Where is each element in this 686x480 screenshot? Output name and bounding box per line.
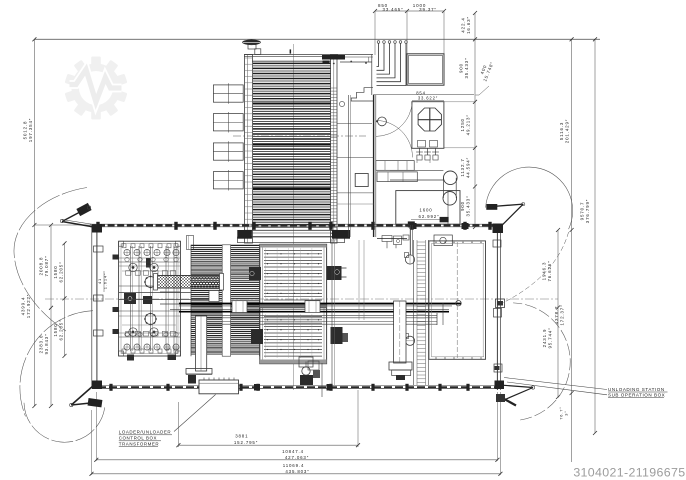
svg-text:39.37″: 39.37″ [419,7,437,12]
section mid lines [337,123,372,125]
svg-text:900: 900 [460,201,465,211]
left door pivot lower [92,381,102,390]
svg-text:3°: 3° [564,410,569,415]
rail carriages [232,301,247,313]
svg-text:1132.7: 1132.7 [460,158,465,176]
bracket above section [337,54,373,56]
svg-text:435.803″: 435.803″ [285,469,309,474]
pallet table dots [267,253,268,254]
loader gripper [124,293,136,304]
small square box [355,174,368,187]
svg-text:49.213″: 49.213″ [466,114,471,135]
svg-text:172.922″: 172.922″ [26,294,31,318]
svg-text:62.205″: 62.205″ [59,261,64,282]
svg-text:4399.4: 4399.4 [21,297,26,316]
loader coupling rows [126,271,131,276]
lower slat hatch [191,244,260,246]
svg-text:11069.4: 11069.4 [283,463,305,468]
lower left door arc [20,311,93,417]
section divider wall [373,95,375,237]
loader left fittings [113,255,120,260]
svg-text:35.433″: 35.433″ [466,195,471,216]
rail valve assemblies [382,236,392,242]
cabinet 1600 [396,191,460,225]
hatch frame lines [190,245,192,356]
svg-text:1.614″: 1.614″ [103,273,108,290]
conveyor left rail [245,55,253,244]
svg-text:172.37″: 172.37″ [560,304,565,325]
svg-text:1600: 1600 [419,208,432,213]
junction box 2 [213,114,243,131]
rail posts [96,222,99,230]
pallet table rows [264,250,322,252]
section step [351,88,373,101]
unload table dots [435,242,436,243]
svg-text:1580: 1580 [53,265,58,278]
electrical cabinet 1000 box [407,54,444,85]
pedestal [187,236,194,250]
unload table [429,241,486,359]
svg-text:1250: 1250 [460,118,465,131]
upper right door arc [486,167,573,229]
top boundary line [34,38,600,40]
pallet left attachments [249,267,261,280]
upper left door arc [14,188,87,332]
svg-text:1946.3: 1946.3 [542,262,547,281]
transformer box [199,380,239,394]
svg-text:5116.3: 5116.3 [559,122,564,140]
pallet table frame [260,244,327,363]
conveyor top frame [244,54,338,56]
svg-text:201.429″: 201.429″ [565,119,570,143]
svg-text:3104021-21196675: 3104021-21196675 [573,465,685,479]
bottom rail foot b [327,384,333,391]
gantry foot [186,369,212,375]
transfer rail second [170,309,449,311]
transfer arm rails [119,292,209,294]
dim line 5012.8 / 4399.4 left [33,39,35,406]
valve manifold [419,148,421,155]
footprint bottom rail [97,385,500,387]
lower right door [495,381,505,390]
conveyor right rail [331,55,338,244]
hatch channel [222,245,230,356]
loader vertical rails [130,246,132,351]
transfer rail dark [179,303,461,305]
upper corridor rail [90,223,500,225]
inner wall [348,95,350,237]
svg-text:93.843″: 93.843″ [44,333,49,354]
svg-text:62.205″: 62.205″ [59,319,64,340]
conveyor top motor [242,40,261,46]
dimension 3881 [178,444,358,446]
junction box 4 [213,172,243,189]
roller lower [405,336,414,345]
svg-text:152.795″: 152.795″ [234,440,258,445]
lift foot [389,362,412,370]
svg-text:41: 41 [97,278,102,284]
dim line 1946.3 / 2431.9 [557,230,559,397]
lower left door [71,383,96,405]
pallet divider [260,304,327,308]
conveyor slat hatch [253,62,331,64]
roller upper [405,255,414,264]
cable bundle [377,41,380,44]
svg-text:9570.7: 9570.7 [580,202,585,221]
svg-text:2431.9: 2431.9 [542,329,547,348]
footprint left edge [91,225,93,389]
rail foot a [410,223,417,229]
svg-text:LOADER/UNLOADER: LOADER/UNLOADER [119,430,171,435]
svg-text:2008.8: 2008.8 [39,257,44,276]
linear guide rail [413,240,415,385]
transfer arm crosshatched [158,276,220,289]
blower duct [390,169,443,171]
pallet right attachments [327,266,342,280]
lower left door arc inner [24,403,105,443]
loader small fittings [122,244,126,248]
junction box 3 [213,143,243,160]
dim line 5116.3 / 4378.2 [571,39,573,462]
svg-text:79.087″: 79.087″ [44,255,49,276]
dimension 11069.4 [92,473,501,475]
loader pulleys [129,263,137,271]
shelf upper [376,161,414,171]
inner door arc a [376,120,413,157]
watermark gear logo [65,57,128,120]
vertical centerline [293,44,295,390]
pump unit U1 [412,102,444,149]
dim line 9570.7 [594,39,596,433]
svg-text:33.622″: 33.622″ [418,96,438,101]
svg-text:76.626″: 76.626″ [547,260,552,281]
junction box 1 [213,85,243,102]
svg-text:35.433″: 35.433″ [464,57,469,78]
svg-text:197.354″: 197.354″ [28,118,33,142]
svg-text:422.4: 422.4 [461,17,466,32]
loader frame [119,241,181,356]
footprint right edge [496,227,498,390]
svg-text:427.063″: 427.063″ [285,455,309,460]
loader feet [127,355,134,361]
sensor circle [378,117,387,126]
horizontal centerline [45,298,558,300]
right edge hinges [496,299,505,308]
svg-text:10847.4: 10847.4 [282,449,304,454]
rail foot b [462,223,469,229]
bottom rail posts [109,384,112,391]
gantry channel [196,316,207,371]
svg-text:376.799″: 376.799″ [585,199,590,223]
upper left door [62,222,97,228]
loader index gears [145,277,156,288]
dim line 2008.8 / 2383.6 [50,225,52,406]
right area verticals [331,240,333,385]
svg-text:5012.8: 5012.8 [23,121,28,140]
svg-text:UNLOADING STATION: UNLOADING STATION [608,387,665,392]
conveyor bottom frame [244,229,338,231]
lower right door arc [513,303,570,420]
conveyor motor neck [255,49,261,55]
bottom rail foot a [254,384,260,391]
dimension 850 / 1000 lines [375,10,444,12]
svg-text:3881: 3881 [235,434,248,439]
svg-text:62.992″: 62.992″ [419,214,440,219]
dim line 1580 pair [64,243,66,356]
shelf lower [377,172,417,182]
upper right door [493,224,504,234]
svg-text:SUB OPERATION BOX: SUB OPERATION BOX [608,392,665,397]
svg-text:900: 900 [459,63,464,73]
transfer guide band [207,314,437,316]
dim chain right of machine [474,13,476,227]
svg-text:33.465″: 33.465″ [383,7,404,12]
section top line [373,94,474,96]
svg-text:16.63″: 16.63″ [466,16,471,34]
loader flanges [124,249,130,255]
left hinge blocks [94,246,104,252]
inner door arc b [376,101,413,136]
svg-text:1580: 1580 [53,323,58,336]
svg-text:44.594″: 44.594″ [466,157,471,178]
svg-text:TRANSFORMER: TRANSFORMER [119,441,159,446]
svg-text:95.744″: 95.744″ [548,327,553,348]
svg-text:CONTROL BOX: CONTROL BOX [119,436,157,441]
loader mid bars [119,261,180,263]
lift bar [394,301,406,363]
pump assembly [299,357,313,367]
upper right swing path [503,232,569,303]
svg-text:2383.6: 2383.6 [39,335,44,354]
dimension 10847.4 [96,459,497,461]
left door pivot upper [92,224,102,233]
